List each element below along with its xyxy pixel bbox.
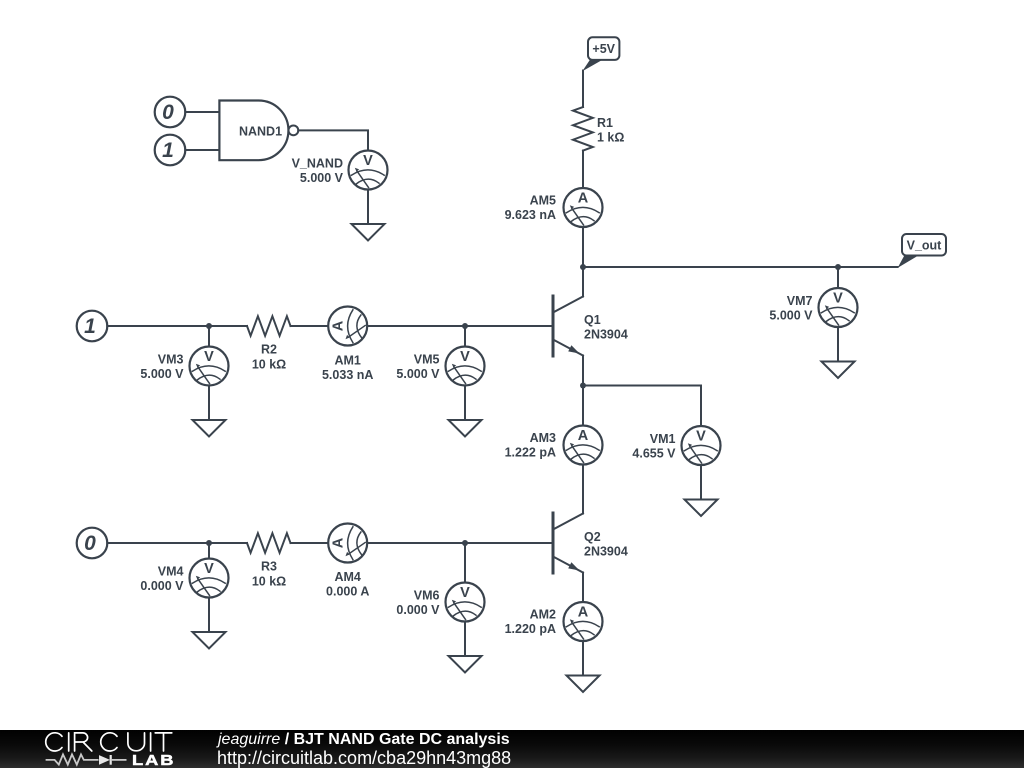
resistor R1 — [573, 107, 593, 151]
wire AM1 to Q1 base — [368, 325, 552, 327]
svg-text:10 kΩ: 10 kΩ — [252, 575, 286, 589]
wire output rail to V_out — [583, 266, 898, 268]
wire row1 input to R2 — [107, 325, 247, 327]
svg-text:V_out: V_out — [907, 239, 943, 253]
ground below VM7 — [822, 327, 855, 378]
wire emitter to AM3 — [582, 386, 584, 426]
ground below AM2 — [567, 641, 600, 692]
node IN0 (row 2 input) — [77, 528, 108, 559]
node VM5 junction — [462, 323, 468, 329]
ground below V_NAND — [352, 190, 385, 241]
wire VM3 stem — [208, 326, 210, 347]
svg-text:5.000 V: 5.000 V — [396, 367, 440, 381]
svg-text:AM5: AM5 — [530, 194, 556, 208]
transistor Q2 2N3904 — [552, 513, 555, 573]
svg-text:AM2: AM2 — [530, 608, 556, 622]
logo resistor-diode squiggle — [46, 754, 99, 764]
gate NAND1 — [219, 101, 288, 161]
voltmeter V_NAND — [349, 151, 388, 190]
wire VM5 stem — [464, 326, 466, 347]
wire AM3 to Q2 collector — [582, 465, 584, 514]
svg-text:0.000 V: 0.000 V — [396, 603, 440, 617]
wire input0 to NAND1 — [185, 111, 219, 113]
wire NAND1 output to V_NAND — [298, 130, 368, 150]
svg-text:10 kΩ: 10 kΩ — [252, 358, 286, 372]
svg-text:R1: R1 — [597, 116, 613, 130]
svg-text:R2: R2 — [261, 343, 277, 357]
wire input1 to NAND1 — [185, 149, 219, 151]
wire R3 to AM4 — [291, 542, 328, 544]
svg-text:AM1: AM1 — [334, 354, 360, 368]
svg-text:AM4: AM4 — [334, 570, 360, 584]
svg-text:NAND1: NAND1 — [239, 125, 282, 139]
svg-text:1 kΩ: 1 kΩ — [597, 131, 624, 145]
node VM7 junction — [835, 264, 841, 270]
svg-text:Q2: Q2 — [584, 530, 601, 544]
svg-text:9.623 nA: 9.623 nA — [505, 208, 556, 222]
ground below VM3 — [193, 386, 226, 437]
svg-text:VM1: VM1 — [650, 432, 676, 446]
wire Q1 emitter — [582, 356, 584, 386]
power flag +5V — [588, 37, 619, 60]
wire Q1 collector — [582, 267, 584, 297]
svg-text:LAB: LAB — [132, 751, 175, 768]
voltmeter VM4 — [190, 559, 229, 598]
svg-text:AM3: AM3 — [530, 431, 556, 445]
svg-text:VM3: VM3 — [158, 353, 184, 367]
svg-text:5.000 V: 5.000 V — [140, 367, 184, 381]
svg-text:1.222 pA: 1.222 pA — [505, 446, 556, 460]
logo CIRCUIT wordmark (thin stroke letters) — [46, 733, 172, 751]
wire AM5 to collector node — [582, 227, 584, 267]
svg-text:2N3904: 2N3904 — [584, 328, 628, 342]
svg-text:VM4: VM4 — [158, 565, 184, 579]
node IN1 (logic input 1, top) — [155, 135, 186, 166]
ground below VM5 — [449, 386, 482, 437]
node emitter junction — [580, 383, 586, 389]
wire R2 to AM1 — [291, 325, 328, 327]
svg-text:0.000 V: 0.000 V — [140, 579, 184, 593]
wire +5V to R1 — [582, 71, 584, 108]
resistor R2 — [247, 316, 291, 336]
svg-text:5.000 V: 5.000 V — [300, 171, 344, 185]
wire AM4 to Q2 base — [368, 542, 552, 544]
voltmeter VM3 — [190, 347, 229, 386]
svg-text:0.000 A: 0.000 A — [326, 585, 369, 599]
node IN1 (row 1 input) — [77, 311, 108, 342]
svg-text:4.655 V: 4.655 V — [632, 447, 676, 461]
wire VM4 stem — [208, 543, 210, 559]
svg-text:V_NAND: V_NAND — [292, 157, 343, 171]
ammeter AM1 (inline) — [328, 307, 367, 346]
svg-text:0: 0 — [162, 101, 174, 124]
svg-text:VM7: VM7 — [787, 294, 813, 308]
svg-text:R3: R3 — [261, 560, 277, 574]
svg-text:1: 1 — [84, 315, 96, 338]
ammeter AM5 — [564, 188, 603, 227]
svg-text:Q1: Q1 — [584, 313, 601, 327]
svg-text:1: 1 — [162, 139, 174, 162]
ground below VM1 — [685, 465, 718, 516]
ground below VM4 — [193, 598, 226, 649]
node IN0 (logic input 0, top) — [155, 97, 186, 128]
wire VM6 stem — [464, 543, 466, 583]
voltmeter VM5 — [446, 347, 485, 386]
node VM4 junction — [206, 540, 212, 546]
net flag V_out — [902, 234, 946, 256]
resistor R3 — [247, 533, 291, 553]
ammeter AM2 — [564, 602, 603, 641]
ground below VM6 — [449, 622, 482, 673]
transistor Q1 2N3904 — [552, 296, 555, 356]
svg-text:5.000 V: 5.000 V — [769, 309, 813, 323]
wire VM7 stem — [837, 267, 839, 289]
wire Q2 emitter to AM2 — [582, 573, 584, 603]
svg-text:2N3904: 2N3904 — [584, 545, 628, 559]
svg-text:0: 0 — [84, 532, 96, 555]
svg-text:1.220 pA: 1.220 pA — [505, 622, 556, 636]
voltmeter VM7 — [819, 288, 858, 327]
svg-text:VM6: VM6 — [414, 589, 440, 603]
node VM6 junction — [462, 540, 468, 546]
svg-text:+5V: +5V — [592, 42, 615, 56]
wire emitter to VM1 — [583, 386, 701, 427]
ammeter AM3 — [564, 426, 603, 465]
node collector junction — [580, 264, 586, 270]
svg-text:VM5: VM5 — [414, 353, 440, 367]
svg-text:5.033 nA: 5.033 nA — [322, 368, 373, 382]
voltmeter VM6 — [446, 583, 485, 622]
wire R1 to AM5 — [582, 151, 584, 188]
voltmeter VM1 — [682, 426, 721, 465]
node VM3 junction — [206, 323, 212, 329]
wire row2 input to R3 — [107, 542, 247, 544]
ammeter AM4 (inline) — [328, 524, 367, 563]
